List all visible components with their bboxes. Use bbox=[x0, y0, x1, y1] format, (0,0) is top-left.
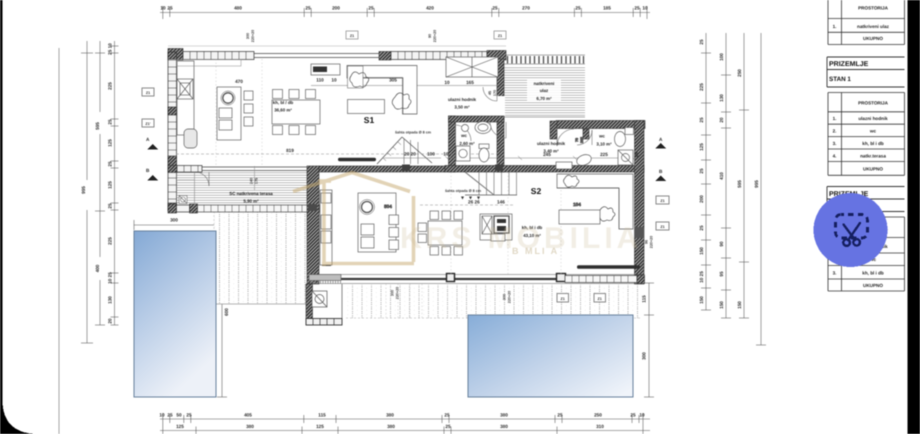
svg-text:25 10: 25 10 bbox=[108, 43, 113, 55]
wall left ladder bbox=[168, 52, 177, 211]
toilet S2 wc bbox=[615, 128, 634, 147]
svg-text:995: 995 bbox=[81, 186, 86, 194]
door arc S2 entry bbox=[557, 129, 574, 146]
wall right bbox=[635, 121, 645, 285]
shower S2 wc bbox=[618, 150, 633, 165]
svg-text:470: 470 bbox=[235, 79, 243, 84]
svg-text:220+20: 220+20 bbox=[650, 236, 654, 248]
facade end block bbox=[637, 275, 645, 284]
svg-text:250: 250 bbox=[594, 413, 602, 418]
dark block near chute bbox=[402, 165, 410, 172]
svg-text:PROSTORIJA: PROSTORIJA bbox=[858, 6, 888, 11]
table 2 stan1 bbox=[828, 93, 905, 176]
svg-text:150: 150 bbox=[699, 296, 704, 304]
svg-text:995: 995 bbox=[754, 180, 759, 188]
svg-text:3,50 m²: 3,50 m² bbox=[454, 105, 470, 110]
facade ladder band right bbox=[565, 276, 637, 283]
Z1 box top 2 bbox=[494, 31, 506, 39]
svg-text:3.: 3. bbox=[833, 141, 837, 146]
svg-text:25: 25 bbox=[492, 6, 498, 11]
svg-text:25: 25 bbox=[167, 6, 173, 11]
svg-text:10 25: 10 25 bbox=[699, 271, 704, 283]
interior dashed guides bbox=[216, 59, 561, 318]
svg-text:90: 90 bbox=[428, 34, 432, 38]
svg-text:150: 150 bbox=[699, 247, 704, 255]
svg-text:300: 300 bbox=[246, 33, 250, 39]
utility room south wall bbox=[306, 319, 342, 326]
svg-text:10: 10 bbox=[443, 152, 449, 157]
svg-text:2.: 2. bbox=[833, 129, 837, 134]
wall under wc row bbox=[445, 166, 644, 173]
svg-text:natkriveni ulaz: natkriveni ulaz bbox=[857, 24, 890, 29]
svg-text:25: 25 bbox=[634, 152, 639, 158]
tv S1 bbox=[313, 67, 327, 73]
svg-text:125: 125 bbox=[176, 424, 184, 429]
wall top: corner block bbox=[168, 49, 183, 61]
dimension line bottom row1 bbox=[160, 413, 650, 425]
top dimension labels bbox=[160, 6, 648, 11]
watermark house logo bbox=[293, 173, 414, 267]
dark block on S2 north wall bbox=[495, 165, 503, 172]
svg-text:20: 20 bbox=[719, 117, 724, 123]
svg-text:25: 25 bbox=[108, 161, 113, 167]
svg-text:819: 819 bbox=[286, 148, 294, 153]
bar chairs S1 bbox=[244, 91, 253, 100]
svg-text:Z1: Z1 bbox=[660, 199, 664, 203]
door arc terrace S1 bbox=[195, 172, 209, 186]
left dimension line outer 995 bbox=[81, 41, 93, 343]
plant S2 a bbox=[564, 175, 580, 187]
svg-text:45: 45 bbox=[488, 91, 492, 95]
svg-text:6,70 m²: 6,70 m² bbox=[536, 96, 552, 101]
wall S2 wing west stub bbox=[550, 121, 557, 139]
chairs S2 bottom bbox=[430, 247, 439, 256]
paving dots bottom bbox=[346, 285, 640, 318]
svg-text:405: 405 bbox=[244, 413, 252, 418]
island sink circle bbox=[223, 93, 233, 103]
svg-text:130: 130 bbox=[719, 94, 724, 102]
paving dots left bbox=[214, 211, 307, 304]
wall top: dark block mid bbox=[379, 52, 391, 61]
svg-text:3,40 m²: 3,40 m² bbox=[543, 149, 559, 154]
svg-text:595: 595 bbox=[95, 122, 100, 130]
dim dashed 819 bbox=[176, 153, 497, 155]
svg-text:146: 146 bbox=[497, 200, 505, 205]
kitchen S1 upper band bbox=[177, 60, 241, 67]
toilet S1 wc bbox=[479, 144, 489, 162]
svg-text:2,60 m²: 2,60 m² bbox=[459, 141, 475, 146]
dining table S2 bbox=[428, 221, 462, 245]
black frame right strip bbox=[908, 0, 920, 434]
utility room east line bbox=[341, 284, 343, 318]
svg-text:50: 50 bbox=[176, 413, 182, 418]
kitchen S1 counter bbox=[177, 61, 194, 135]
svg-text:300: 300 bbox=[391, 290, 395, 296]
svg-text:170: 170 bbox=[493, 90, 497, 96]
kitchen S2 counter bbox=[480, 214, 512, 241]
svg-text:10: 10 bbox=[639, 413, 645, 418]
svg-text:25: 25 bbox=[305, 6, 311, 11]
tall unit S2 kitchen bbox=[320, 190, 332, 265]
svg-text:225: 225 bbox=[699, 83, 704, 91]
Z1 box left 2 bbox=[142, 119, 154, 127]
boundary line left bbox=[58, 48, 60, 434]
svg-text:125: 125 bbox=[108, 139, 113, 147]
svg-text:ulaz: ulaz bbox=[540, 88, 549, 93]
svg-text:PROSTORIJA: PROSTORIJA bbox=[858, 101, 888, 106]
Z1 box bottom 2 bbox=[594, 294, 606, 303]
sofa S2 bbox=[557, 174, 633, 229]
svg-text:150: 150 bbox=[719, 301, 724, 309]
svg-text:natkriveni: natkriveni bbox=[534, 81, 555, 86]
wall top: dark block right bbox=[487, 51, 506, 61]
sink block S1 with hatch bbox=[177, 79, 193, 99]
svg-text:310: 310 bbox=[596, 424, 604, 429]
svg-text:420: 420 bbox=[426, 6, 434, 11]
chairs S1 top bbox=[273, 90, 283, 99]
svg-text:wc: wc bbox=[460, 133, 467, 138]
svg-text:25: 25 bbox=[630, 413, 636, 418]
svg-text:90: 90 bbox=[719, 241, 724, 247]
wall S2 south facade bbox=[309, 275, 644, 284]
svg-text:10: 10 bbox=[642, 6, 648, 11]
left dimension line inner segments bbox=[111, 41, 119, 325]
utility room west wall bbox=[306, 284, 313, 325]
svg-text:Z1: Z1 bbox=[146, 91, 150, 95]
wall top: window lines bbox=[254, 54, 379, 58]
Z1 box top 1 bbox=[346, 31, 358, 39]
sofa S1 bbox=[347, 66, 417, 115]
svg-text:25: 25 bbox=[575, 6, 581, 11]
svg-text:595: 595 bbox=[737, 180, 742, 188]
wall S1 south band with window bbox=[168, 166, 177, 173]
svg-text:380: 380 bbox=[386, 413, 394, 418]
dim line wc row bbox=[384, 156, 635, 160]
dark door panel right wall bbox=[635, 227, 645, 238]
svg-text:225: 225 bbox=[108, 82, 113, 90]
pool right bbox=[468, 315, 633, 397]
svg-text:410: 410 bbox=[719, 172, 724, 180]
svg-text:205: 205 bbox=[580, 137, 584, 143]
sink S1 wc bbox=[475, 122, 491, 134]
dimension line top bbox=[160, 6, 650, 19]
chute triangle S1 bbox=[377, 137, 432, 164]
left dimension line mid 595/400 bbox=[95, 41, 105, 325]
svg-text:25: 25 bbox=[699, 225, 704, 231]
svg-text:25: 25 bbox=[368, 6, 374, 11]
terrace natkrivena terasa hatch bbox=[177, 172, 307, 209]
svg-text:380: 380 bbox=[387, 424, 395, 429]
svg-text:10 25: 10 25 bbox=[108, 272, 113, 284]
svg-text:Z1: Z1 bbox=[660, 225, 664, 229]
wall wc west bbox=[449, 116, 456, 172]
svg-text:240: 240 bbox=[250, 178, 254, 184]
svg-text:25: 25 bbox=[186, 413, 192, 418]
svg-text:UKUPNO: UKUPNO bbox=[863, 167, 883, 172]
svg-text:wc: wc bbox=[869, 129, 877, 134]
svg-text:220+20: 220+20 bbox=[251, 30, 255, 42]
svg-text:125: 125 bbox=[108, 181, 113, 189]
table 3 stan2 bbox=[828, 217, 905, 291]
wall bottom-left stub bbox=[168, 204, 177, 213]
svg-text:115: 115 bbox=[318, 413, 326, 418]
svg-text:B MLI A: B MLI A bbox=[512, 246, 559, 256]
svg-text:220+20: 220+20 bbox=[508, 291, 512, 303]
chairs S2 left bbox=[418, 223, 427, 232]
top rotated door labels bbox=[246, 30, 437, 42]
wall wc north bbox=[449, 116, 505, 122]
svg-text:26 26: 26 26 bbox=[468, 200, 480, 205]
island S2 drawers bbox=[361, 224, 374, 235]
svg-text:3.: 3. bbox=[833, 271, 837, 276]
svg-text:Z1: Z1 bbox=[598, 297, 602, 301]
svg-text:480: 480 bbox=[234, 6, 242, 11]
fridge S1 rounded bbox=[184, 129, 197, 148]
natkriveni ulaz hatch bbox=[504, 68, 585, 118]
island drawers bbox=[219, 108, 232, 118]
pool right dimension 115/300 bbox=[644, 283, 654, 397]
chute arrows bbox=[461, 197, 480, 200]
svg-text:380: 380 bbox=[500, 424, 508, 429]
black frame left strip and rounded corner bbox=[0, 0, 35, 434]
coffee table S2 bbox=[559, 210, 600, 224]
svg-text:SC natkrivena terasa: SC natkrivena terasa bbox=[229, 191, 273, 196]
svg-text:kh, bl i db: kh, bl i db bbox=[862, 271, 884, 276]
wall wc divider S2 bbox=[583, 129, 589, 139]
facade sill block left bbox=[309, 275, 341, 281]
wardrobe hodnik S1 bbox=[446, 57, 498, 77]
svg-text:10: 10 bbox=[159, 413, 165, 418]
svg-text:šahta otpada Ø 8 cm: šahta otpada Ø 8 cm bbox=[445, 189, 482, 193]
washing machine utility bbox=[312, 291, 327, 307]
svg-text:25: 25 bbox=[108, 119, 113, 125]
canopy line above top wall bbox=[168, 45, 506, 47]
svg-text:Z1: Z1 bbox=[350, 34, 354, 38]
door arc S1 living bbox=[483, 87, 497, 101]
svg-text:S1: S1 bbox=[364, 115, 375, 125]
svg-text:25: 25 bbox=[634, 6, 640, 11]
svg-text:185: 185 bbox=[603, 6, 611, 11]
svg-text:3,10 m²: 3,10 m² bbox=[596, 142, 612, 147]
sliding door track S1 bbox=[338, 158, 376, 161]
svg-text:200: 200 bbox=[332, 6, 340, 11]
svg-text:225: 225 bbox=[600, 152, 608, 157]
svg-text:115: 115 bbox=[642, 295, 647, 303]
svg-text:110: 110 bbox=[316, 78, 324, 83]
right dimension lines bbox=[701, 33, 766, 345]
svg-text:4.: 4. bbox=[833, 154, 837, 159]
svg-text:96: 96 bbox=[645, 240, 649, 244]
svg-text:ulazni hodnik: ulazni hodnik bbox=[448, 97, 477, 102]
stairs S2 bbox=[465, 172, 517, 195]
svg-text:250: 250 bbox=[737, 69, 742, 77]
wall S2 north band (left part) bbox=[319, 166, 445, 172]
facade post 1 bbox=[447, 274, 455, 282]
svg-text:220+20: 220+20 bbox=[396, 287, 400, 299]
svg-text:125: 125 bbox=[316, 424, 324, 429]
svg-text:600: 600 bbox=[224, 308, 229, 316]
island S1 bbox=[217, 87, 241, 140]
chairs S1 bottom bbox=[273, 126, 283, 135]
plant S1 a bbox=[350, 72, 369, 87]
island S2 kitchen bbox=[358, 193, 396, 252]
svg-text:200: 200 bbox=[699, 195, 704, 203]
door arc S1 wc bbox=[455, 125, 471, 141]
Z1 box bottom 1 bbox=[557, 294, 569, 303]
Z1 box left 1 bbox=[142, 88, 154, 96]
wall top: ladder band 1 bbox=[183, 52, 254, 60]
svg-text:95: 95 bbox=[719, 271, 724, 277]
svg-text:25: 25 bbox=[167, 413, 173, 418]
svg-text:70: 70 bbox=[575, 138, 579, 142]
dark block tall unit base bbox=[322, 255, 331, 266]
dining table S1 bbox=[272, 100, 320, 124]
bar chairs S2 bbox=[389, 215, 399, 225]
chairs S2 top bbox=[430, 211, 439, 220]
wall top: ladder band 2 bbox=[391, 52, 487, 60]
svg-text:130: 130 bbox=[108, 296, 113, 304]
door arc S2 wc bbox=[577, 130, 592, 145]
svg-text:UKUPNO: UKUPNO bbox=[863, 36, 883, 41]
plant S1 b bbox=[392, 93, 411, 109]
floor drain terrace bbox=[179, 196, 187, 204]
svg-text:104: 104 bbox=[573, 202, 581, 207]
svg-text:20: 20 bbox=[108, 318, 113, 324]
svg-text:25: 25 bbox=[444, 413, 450, 418]
coffee table S1 bbox=[348, 100, 385, 114]
svg-text:Z1: Z1 bbox=[498, 34, 502, 38]
svg-text:300: 300 bbox=[170, 218, 178, 223]
svg-text:wc: wc bbox=[598, 134, 605, 139]
svg-text:Z1': Z1' bbox=[145, 122, 150, 126]
terrace south parapet ladder bbox=[198, 205, 320, 212]
svg-text:25: 25 bbox=[108, 203, 113, 209]
wall hallway vertical bbox=[497, 59, 504, 172]
svg-text:165: 165 bbox=[466, 80, 474, 85]
svg-text:504: 504 bbox=[384, 204, 392, 209]
bottom row2 labels bbox=[176, 424, 604, 429]
svg-text:225: 225 bbox=[108, 237, 113, 245]
svg-text:25: 25 bbox=[699, 168, 704, 174]
svg-text:300: 300 bbox=[503, 294, 507, 300]
svg-text:100: 100 bbox=[719, 53, 724, 61]
screenshot crop badge circle bbox=[814, 193, 888, 267]
svg-text:kh, bl i db: kh, bl i db bbox=[862, 141, 884, 146]
bottom row1 labels bbox=[159, 413, 645, 418]
svg-text:Z1: Z1 bbox=[561, 297, 565, 301]
dim 26 26 146 S2 bbox=[420, 204, 515, 206]
wall S2 wing north bbox=[556, 121, 645, 129]
wall mid column bbox=[307, 166, 319, 284]
dimension line bottom row2 bbox=[160, 425, 650, 434]
svg-text:UKUPNO: UKUPNO bbox=[863, 283, 883, 288]
shelf S2 hall bbox=[556, 162, 572, 169]
label natkriveni ulaz bbox=[527, 78, 561, 102]
pool left dimension 300/330 bbox=[134, 220, 310, 397]
header PRIZEMLJE STAN 1 bbox=[827, 57, 905, 87]
dim line 110 row bbox=[311, 85, 498, 87]
svg-text:25: 25 bbox=[699, 117, 704, 123]
svg-text:natkr.terasa: natkr.terasa bbox=[860, 154, 886, 159]
door arc S1 entry bbox=[490, 122, 506, 138]
svg-text:kh, bl / db: kh, bl / db bbox=[273, 100, 294, 105]
island S2 sink bbox=[362, 202, 373, 213]
Z1 box right 1 bbox=[656, 196, 669, 204]
svg-text:100: 100 bbox=[427, 152, 435, 157]
header PRIZEMLJE STAN 2 bbox=[827, 187, 905, 212]
Z1 box right 2 bbox=[656, 222, 669, 230]
svg-text:20 20: 20 20 bbox=[404, 152, 416, 157]
svg-text:1.: 1. bbox=[833, 116, 837, 121]
table 1 top bbox=[828, 0, 905, 45]
svg-text:STAN 1: STAN 1 bbox=[829, 76, 851, 83]
svg-text:10: 10 bbox=[444, 80, 450, 85]
svg-text:400: 400 bbox=[95, 264, 100, 272]
svg-text:300: 300 bbox=[642, 352, 647, 360]
paving outline dashes bbox=[214, 211, 640, 318]
svg-text:380: 380 bbox=[246, 424, 254, 429]
washer S1 wc bbox=[456, 146, 470, 161]
svg-text:36,60 m²: 36,60 m² bbox=[274, 108, 292, 113]
svg-text:220+20: 220+20 bbox=[433, 30, 437, 42]
svg-text:25: 25 bbox=[699, 39, 704, 45]
svg-text:PRIZEMLJE: PRIZEMLJE bbox=[829, 61, 869, 68]
svg-text:5,90 m²: 5,90 m² bbox=[243, 199, 259, 204]
boiler S1 wc bbox=[462, 125, 469, 132]
door gap hallway bbox=[496, 96, 505, 116]
svg-text:125: 125 bbox=[699, 143, 704, 151]
pergola comb top bbox=[504, 55, 585, 117]
svg-text:25: 25 bbox=[445, 424, 451, 429]
svg-text:ulazni hodnik: ulazni hodnik bbox=[858, 116, 888, 121]
svg-text:ulazni hodnik: ulazni hodnik bbox=[537, 141, 566, 146]
scissors icon bbox=[843, 223, 860, 246]
svg-text:10: 10 bbox=[331, 78, 337, 83]
tv bench S1 bbox=[311, 64, 340, 75]
pool left bbox=[134, 231, 216, 397]
dark block on mid column bbox=[308, 204, 317, 211]
svg-text:270: 270 bbox=[522, 6, 530, 11]
wall left dark blocks bbox=[168, 52, 177, 59]
crop icon dashed rect bbox=[836, 215, 868, 239]
svg-text:S2: S2 bbox=[531, 186, 542, 196]
svg-text:šahta otpada Ø 8 cm: šahta otpada Ø 8 cm bbox=[395, 131, 432, 135]
svg-text:25: 25 bbox=[557, 413, 563, 418]
sink S2 wc bbox=[575, 153, 593, 168]
svg-text:380: 380 bbox=[500, 413, 508, 418]
plant S2 b bbox=[598, 207, 615, 221]
svg-text:1.: 1. bbox=[833, 24, 837, 29]
svg-text:175: 175 bbox=[255, 178, 259, 184]
sliding door track S2 bbox=[577, 265, 640, 269]
svg-text:150: 150 bbox=[737, 301, 742, 309]
terrace closet bbox=[178, 173, 195, 205]
facade post 2 bbox=[557, 274, 566, 282]
svg-text:10: 10 bbox=[160, 6, 166, 11]
